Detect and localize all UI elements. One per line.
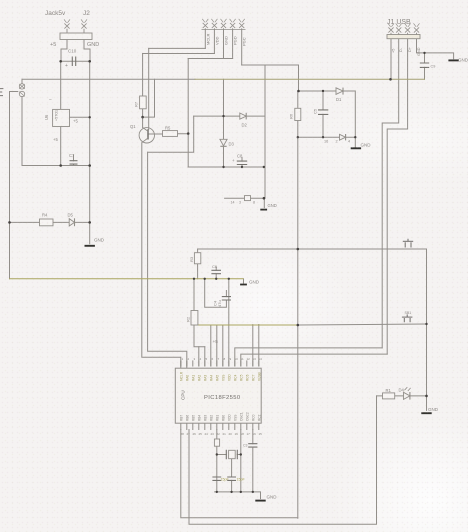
svg-text:17: 17 — [247, 432, 251, 436]
svg-text:PIC18F2550: PIC18F2550 — [204, 395, 241, 401]
svg-text:16: 16 — [253, 432, 257, 436]
svg-text:C9: C9 — [431, 65, 436, 69]
svg-text:15pF: 15pF — [237, 478, 246, 482]
svg-text:CPU: CPU — [181, 390, 186, 400]
svg-text:25: 25 — [199, 432, 203, 436]
svg-text:+5: +5 — [213, 339, 219, 345]
svg-text:R4: R4 — [42, 213, 48, 218]
svg-text:D4: D4 — [399, 388, 405, 393]
svg-text:RB4: RB4 — [197, 415, 201, 421]
svg-text:MCLR: MCLR — [179, 371, 183, 381]
svg-text:1: 1 — [182, 357, 184, 361]
svg-text:GND: GND — [224, 36, 229, 45]
svg-text:RC2: RC2 — [257, 414, 261, 421]
svg-text:+5: +5 — [50, 42, 56, 48]
svg-text:VSS: VSS — [221, 375, 225, 381]
svg-text:11: 11 — [241, 357, 244, 361]
svg-text:23: 23 — [211, 432, 215, 436]
svg-text:J2: J2 — [83, 10, 90, 17]
svg-text:GND: GND — [361, 143, 372, 148]
svg-text:18: 18 — [241, 432, 245, 436]
svg-text:47u: 47u — [217, 300, 222, 307]
svg-text:RA1: RA1 — [191, 375, 195, 381]
svg-text:GND: GND — [417, 47, 421, 56]
svg-text:RA0: RA0 — [185, 375, 189, 381]
svg-text:R6: R6 — [289, 113, 294, 119]
svg-text:D+: D+ — [408, 46, 412, 52]
svg-text:10: 10 — [235, 357, 239, 361]
svg-text:C10: C10 — [68, 49, 77, 54]
svg-text:VUSB: VUSB — [257, 372, 261, 381]
svg-text:+5TO1: +5TO1 — [55, 110, 59, 121]
svg-text:VDD: VDD — [227, 374, 231, 381]
svg-text:R2: R2 — [186, 316, 191, 322]
svg-text:RC0: RC0 — [251, 414, 255, 421]
svg-text:R5: R5 — [165, 126, 171, 131]
svg-text:+5: +5 — [391, 49, 395, 53]
svg-text:RC6: RC6 — [245, 374, 249, 381]
svg-text:MCLR: MCLR — [205, 34, 210, 45]
svg-text:21: 21 — [223, 432, 227, 436]
svg-text:PGD: PGD — [233, 36, 238, 45]
svg-text:+: + — [232, 158, 235, 163]
svg-text:RA5: RA5 — [215, 375, 219, 381]
svg-text:22: 22 — [217, 432, 221, 436]
svg-text:RB5: RB5 — [191, 415, 195, 421]
svg-text:6: 6 — [212, 357, 214, 361]
svg-text:20: 20 — [229, 432, 233, 436]
svg-text:RC5: RC5 — [239, 374, 243, 381]
svg-text:RB3: RB3 — [203, 415, 207, 421]
svg-text:D2: D2 — [242, 123, 248, 128]
svg-text:RA2: RA2 — [197, 375, 201, 381]
svg-text:C6: C6 — [212, 264, 218, 269]
svg-text:RB0: RB0 — [221, 415, 225, 421]
svg-text:24: 24 — [205, 432, 209, 436]
svg-text:+5: +5 — [53, 137, 58, 142]
svg-text:RC4: RC4 — [233, 374, 237, 381]
svg-text:+: + — [65, 63, 68, 69]
svg-text:C5: C5 — [313, 108, 318, 114]
svg-text:13: 13 — [253, 357, 257, 361]
svg-text:8: 8 — [253, 201, 255, 205]
svg-text:GND: GND — [94, 238, 105, 243]
svg-text:GND: GND — [458, 58, 468, 63]
svg-text:Jack5v: Jack5v — [45, 10, 66, 17]
svg-text:3: 3 — [194, 357, 196, 361]
svg-text:D-: D- — [399, 47, 403, 52]
svg-text:RB6: RB6 — [185, 415, 189, 421]
svg-text:U6: U6 — [44, 114, 49, 120]
svg-text:C7: C7 — [69, 153, 75, 158]
svg-text:GND: GND — [267, 495, 278, 500]
svg-text:14: 14 — [259, 357, 263, 361]
svg-text:15pF: 15pF — [221, 478, 230, 482]
svg-text:GND: GND — [268, 203, 277, 208]
svg-text:−: − — [49, 98, 52, 104]
svg-text:OSC2: OSC2 — [245, 412, 249, 421]
svg-text:GND: GND — [87, 42, 99, 48]
svg-text:D3: D3 — [229, 142, 235, 147]
svg-text:PGC: PGC — [242, 37, 247, 46]
svg-text:Q1: Q1 — [130, 124, 136, 129]
svg-text:15: 15 — [259, 432, 263, 436]
svg-text:VDD: VDD — [227, 414, 231, 421]
svg-text:R3: R3 — [189, 256, 194, 262]
svg-text:8: 8 — [224, 357, 226, 361]
svg-text:+5: +5 — [73, 119, 78, 124]
svg-text:VDD: VDD — [214, 36, 219, 45]
svg-text:RA4: RA4 — [209, 375, 213, 381]
svg-text:28: 28 — [181, 432, 185, 436]
svg-text:RA3: RA3 — [203, 375, 207, 381]
svg-text:RB7: RB7 — [179, 415, 183, 421]
svg-text:RB2: RB2 — [209, 415, 213, 421]
svg-text:OSC1: OSC1 — [239, 412, 243, 421]
svg-text:C8: C8 — [237, 154, 243, 159]
svg-text:9: 9 — [230, 357, 232, 361]
svg-text:3: 3 — [239, 201, 241, 205]
svg-text:D5: D5 — [68, 213, 74, 218]
svg-text:RB1: RB1 — [215, 415, 219, 421]
svg-text:D1: D1 — [336, 97, 342, 102]
svg-text:5: 5 — [206, 357, 208, 361]
svg-text:16: 16 — [324, 140, 328, 144]
svg-text:RC7: RC7 — [251, 374, 255, 381]
svg-text:26: 26 — [193, 432, 197, 436]
svg-text:VSS: VSS — [233, 415, 237, 421]
svg-text:27: 27 — [187, 432, 191, 436]
svg-text:12: 12 — [247, 357, 251, 361]
svg-text:GND: GND — [249, 280, 260, 285]
svg-text:7: 7 — [218, 357, 220, 361]
svg-text:4: 4 — [200, 357, 202, 361]
svg-text:J1 USB: J1 USB — [387, 19, 411, 26]
svg-text:R1: R1 — [386, 388, 392, 393]
svg-text:14: 14 — [231, 201, 235, 205]
svg-text:R7: R7 — [134, 101, 139, 107]
svg-text:4: 4 — [348, 140, 350, 144]
svg-text:19: 19 — [235, 432, 239, 436]
svg-text:SB1: SB1 — [405, 311, 412, 315]
svg-text:C3: C3 — [243, 444, 248, 448]
svg-text:2: 2 — [336, 140, 338, 144]
svg-text:GND: GND — [428, 407, 439, 412]
svg-text:2: 2 — [188, 357, 190, 361]
